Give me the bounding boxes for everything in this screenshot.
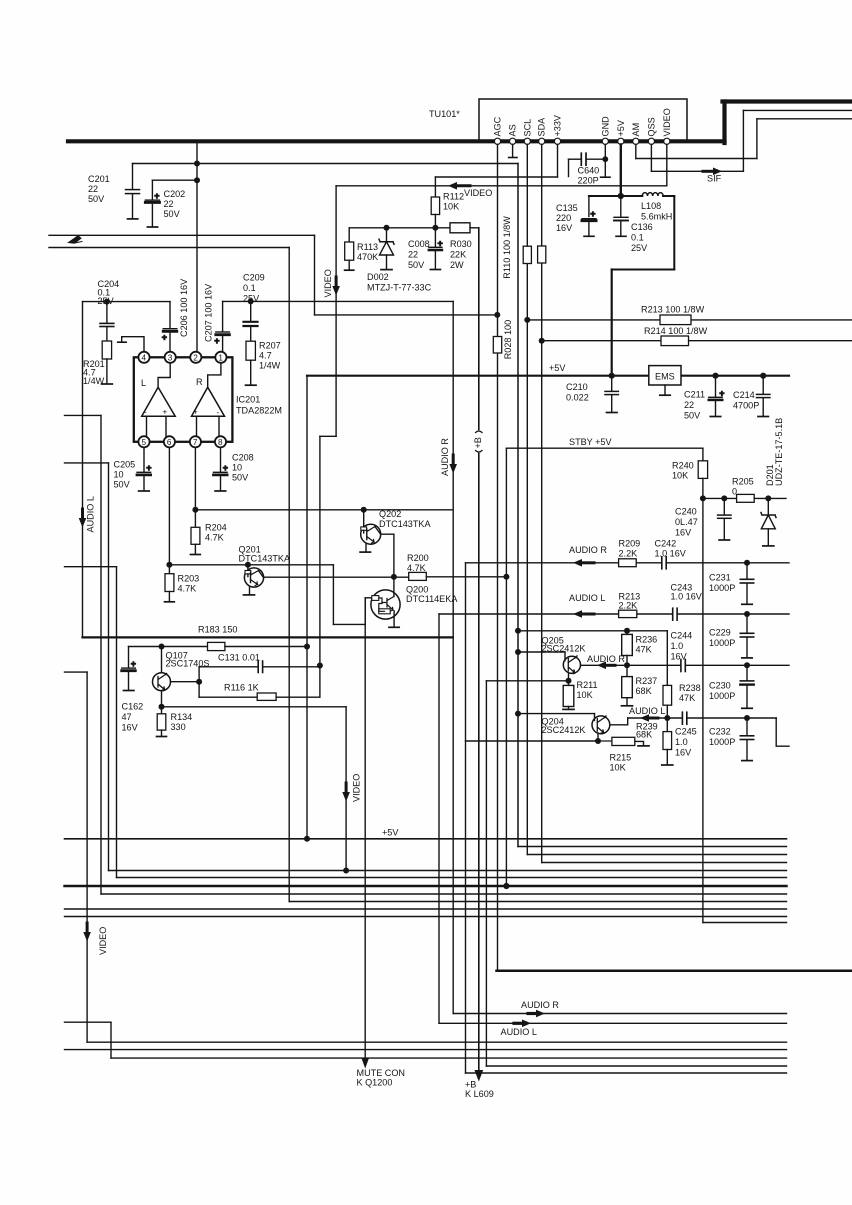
svg-text:10K: 10K bbox=[672, 471, 688, 481]
svg-text:L: L bbox=[141, 378, 146, 388]
wire L108 box right side bbox=[673, 196, 675, 270]
wire bus y854.5 from SCL bbox=[527, 854, 786, 856]
svg-text:1000P: 1000P bbox=[709, 737, 735, 747]
node Q204 emitter bbox=[595, 738, 601, 744]
svg-text:22: 22 bbox=[164, 199, 174, 209]
node C640-GND junction bbox=[602, 156, 608, 162]
wire left stub5 y1022.2 bbox=[65, 1021, 112, 1023]
wire C640 horizontal bbox=[569, 158, 581, 160]
diode D201 zener bbox=[767, 498, 769, 514]
capacitor C201 bbox=[126, 189, 140, 191]
svg-text:0: 0 bbox=[732, 487, 737, 497]
node Q107 base bbox=[196, 679, 202, 685]
wire AUDIO-R vertical v453 bbox=[452, 301, 454, 1013]
svg-text:C211: C211 bbox=[684, 390, 705, 400]
R207 end bar bbox=[246, 384, 257, 386]
wire C245 to C232 line bbox=[688, 717, 777, 719]
svg-text:R116 1K: R116 1K bbox=[224, 683, 259, 693]
svg-text:22: 22 bbox=[408, 250, 418, 260]
wire v346 video drop bbox=[345, 707, 347, 871]
resistor R207 bbox=[246, 341, 255, 360]
svg-text:SDA: SDA bbox=[537, 117, 547, 137]
C201 end bar bbox=[128, 218, 138, 220]
svg-text:R236: R236 bbox=[636, 635, 658, 645]
svg-text:R: R bbox=[196, 377, 203, 387]
node Q201 base bbox=[245, 562, 251, 568]
svg-text:220P: 220P bbox=[578, 176, 599, 186]
wire AUDIO L output line y1023.3 bbox=[439, 1022, 787, 1024]
wire bottom line y1058.1 bbox=[111, 1057, 787, 1059]
svg-text:50V: 50V bbox=[88, 194, 105, 204]
svg-text:+: + bbox=[162, 333, 167, 342]
wire VIDEO left long bbox=[336, 185, 667, 187]
capacitor C008 (polar) bbox=[434, 231, 436, 247]
svg-text:K L609: K L609 bbox=[465, 1089, 494, 1099]
wire Q200 base lead bbox=[365, 597, 372, 599]
capacitor C135 (polar) bbox=[582, 218, 596, 220]
svg-text:0.1: 0.1 bbox=[631, 233, 644, 243]
svg-text:AUDIO R: AUDIO R bbox=[440, 438, 450, 476]
wire R236 bottom to node bbox=[626, 656, 628, 666]
svg-text:C242: C242 bbox=[655, 539, 677, 549]
wire AGC bottom corner to thick line bbox=[497, 970, 852, 973]
wire box bottom left bbox=[612, 269, 675, 271]
node L108 input bbox=[618, 193, 624, 199]
wire line y1073 from v466 bbox=[466, 1072, 787, 1074]
connector TU101 box bbox=[479, 99, 687, 141]
wire v703 long drop bbox=[702, 498, 704, 922]
svg-text:AUDIO R: AUDIO R bbox=[569, 545, 607, 555]
wire line y1066 from v487 bbox=[486, 1065, 786, 1067]
wire L-net y301.6 bbox=[83, 301, 171, 303]
wire R240 drop bbox=[702, 448, 704, 461]
arrow AUDIO R inner (left) bbox=[603, 664, 615, 667]
pin4 ground bar bbox=[118, 341, 127, 343]
wire AM riser bbox=[756, 119, 758, 159]
transistor Q107 (2SC1740S) bbox=[161, 647, 163, 674]
svg-text:47K: 47K bbox=[679, 693, 695, 703]
transistor Q205 (2SC2412K) bbox=[563, 656, 580, 673]
D201 end bar bbox=[763, 545, 774, 547]
thick bus riser right bbox=[722, 102, 726, 144]
pin VIDEO bbox=[664, 138, 670, 144]
svg-text:+B: +B bbox=[465, 1080, 476, 1090]
resistor R214 100 bbox=[661, 336, 689, 346]
wire pin4 riser and ground bbox=[122, 337, 144, 352]
svg-text:2: 2 bbox=[193, 354, 198, 363]
wire +5V bottom rail y838.8 bbox=[65, 838, 787, 840]
svg-text:+: + bbox=[163, 408, 168, 417]
svg-text:AUDIO R: AUDIO R bbox=[587, 654, 625, 664]
pin QSS bbox=[648, 138, 654, 144]
transistor Q204 (2SC2412K) bbox=[592, 716, 610, 734]
svg-text:+: + bbox=[720, 389, 725, 398]
wire +5V pin down (thick) bbox=[620, 144, 622, 196]
svg-text:2SC2412K: 2SC2412K bbox=[542, 644, 586, 654]
svg-text:68K: 68K bbox=[636, 730, 652, 740]
svg-text:DTC143TKA: DTC143TKA bbox=[239, 554, 291, 564]
svg-text:2.2K: 2.2K bbox=[619, 601, 638, 611]
arrow AUDIO L inner (left) bbox=[646, 717, 658, 720]
wire bus y916.5 bbox=[65, 916, 787, 918]
pin 5 bbox=[138, 436, 149, 447]
pin 4 bbox=[138, 352, 149, 363]
wire v108.5 bbox=[108, 463, 110, 871]
svg-text:25V: 25V bbox=[243, 294, 260, 304]
wire bus y894 from v101 bbox=[101, 893, 787, 895]
svg-text:VIDEO: VIDEO bbox=[323, 269, 333, 297]
svg-text:AUDIO L: AUDIO L bbox=[629, 706, 665, 716]
wire left stub1 y415 bbox=[65, 414, 102, 416]
wire Q202 collector to join bbox=[381, 534, 394, 577]
svg-text:R028 100: R028 100 bbox=[503, 320, 513, 359]
C210 end bar bbox=[607, 412, 618, 414]
arrow AUDIO R output (right) bbox=[528, 1012, 537, 1015]
wire Q205 emitter bbox=[568, 673, 570, 681]
svg-text:2.2K: 2.2K bbox=[619, 549, 638, 559]
resistor R237 bbox=[626, 665, 628, 676]
node v307 to bottom rail bbox=[304, 836, 310, 842]
node Q202 base tap bbox=[361, 507, 367, 513]
svg-text:2SC1740S: 2SC1740S bbox=[166, 659, 210, 669]
svg-text:22: 22 bbox=[88, 184, 98, 194]
svg-text:16V: 16V bbox=[675, 748, 692, 758]
wire C201 drop bbox=[132, 164, 134, 189]
svg-text:AUDIO L: AUDIO L bbox=[501, 1027, 537, 1037]
svg-text:1.0 16V: 1.0 16V bbox=[655, 549, 687, 559]
wire C232 line jog right bbox=[776, 718, 789, 746]
svg-text:VIDEO: VIDEO bbox=[352, 774, 362, 802]
wire R116 right and riser bbox=[276, 669, 320, 698]
wire STBY vertical v506 bbox=[505, 448, 507, 886]
svg-text:C205: C205 bbox=[114, 460, 136, 470]
IC201 box bbox=[134, 357, 233, 442]
wire +B vertical upper bbox=[478, 228, 480, 430]
wire C135 lower leg bbox=[588, 223, 590, 236]
node C240 bbox=[721, 495, 727, 501]
wire R238 drop from rail bbox=[666, 631, 668, 686]
capacitor C640 bbox=[580, 153, 582, 165]
wire R207 lower leg bbox=[250, 360, 252, 385]
svg-text:C201: C201 bbox=[88, 174, 110, 184]
wire C640 left leg bbox=[568, 159, 570, 176]
resistor R028 bbox=[493, 337, 501, 354]
wire C131 line y666.8 bbox=[199, 666, 257, 668]
svg-text:4700P: 4700P bbox=[733, 401, 759, 411]
inductor L108 bbox=[621, 195, 643, 197]
main ground bus (thick) bbox=[68, 139, 725, 143]
wire bus y870.5 from v108.5 bbox=[109, 870, 787, 872]
wire +5V rail y375.7 (thick) bbox=[307, 375, 649, 377]
arrow AUDIO L output (right) bbox=[514, 1022, 523, 1025]
wire v307 drop bbox=[306, 376, 308, 839]
svg-text:-: - bbox=[144, 408, 147, 417]
wire Q201 emitter ground bbox=[249, 587, 251, 595]
wire R239 lower leg bbox=[666, 750, 668, 765]
wire L- input bbox=[146, 416, 148, 436]
pin 3 bbox=[165, 352, 176, 363]
C008 end bar bbox=[430, 269, 440, 271]
svg-text:R215: R215 bbox=[610, 753, 632, 763]
svg-text:50V: 50V bbox=[114, 480, 131, 490]
svg-text:220: 220 bbox=[556, 213, 571, 223]
pin 8 bbox=[215, 436, 226, 447]
svg-text:+: + bbox=[223, 464, 228, 473]
wire bus y886 thick bbox=[65, 885, 787, 887]
capacitor C242 bbox=[661, 557, 663, 569]
wire VIDEO pin down bbox=[666, 144, 668, 185]
svg-text:VIDEO: VIDEO bbox=[98, 927, 108, 955]
wire R211 lower leg bbox=[568, 707, 570, 710]
transistor Q201 (DTC143TKA) bbox=[244, 568, 263, 587]
svg-text:VIDEO: VIDEO bbox=[662, 108, 672, 136]
op-amp R bbox=[192, 387, 225, 416]
wire +B vertical lower bbox=[478, 454, 480, 1074]
resistor R113 bbox=[345, 242, 354, 260]
node AUDIO L inner bbox=[664, 715, 670, 721]
node D201 bbox=[765, 495, 771, 501]
svg-text:+5V: +5V bbox=[549, 363, 566, 373]
svg-text:1000P: 1000P bbox=[709, 583, 735, 593]
wire Q204 collector to AUDIO L inner bbox=[610, 718, 628, 725]
wire C131 to v320 bbox=[264, 666, 320, 668]
svg-text:SIF: SIF bbox=[707, 174, 722, 184]
pin +33V bbox=[554, 138, 560, 144]
resistor R201 bbox=[102, 341, 111, 359]
R201 end bar bbox=[102, 383, 113, 385]
wire v111 bbox=[110, 1022, 112, 1058]
svg-text:R200: R200 bbox=[407, 553, 429, 563]
svg-text:+: + bbox=[155, 192, 160, 201]
svg-text:C131 0.01: C131 0.01 bbox=[218, 653, 260, 663]
svg-text:0L.47: 0L.47 bbox=[675, 517, 698, 527]
svg-text:50V: 50V bbox=[684, 411, 701, 421]
Q201 ground bar bbox=[244, 594, 255, 596]
wire v487 bbox=[485, 681, 487, 1066]
svg-text:47K: 47K bbox=[636, 645, 652, 655]
capacitor C208 (polar) bbox=[220, 447, 222, 471]
svg-text:22K: 22K bbox=[450, 250, 466, 260]
svg-text:C244: C244 bbox=[671, 631, 693, 641]
node SCL/R213 bbox=[524, 317, 530, 323]
arrow +B end bbox=[474, 1070, 483, 1082]
wire line y247.5 bbox=[49, 247, 289, 249]
wire C135 leg bbox=[588, 196, 590, 217]
capacitor C244 bbox=[680, 660, 682, 672]
wire D002-box top line y235.3 bbox=[49, 234, 315, 236]
node STBY/collector bbox=[503, 574, 509, 580]
svg-text:+: + bbox=[438, 239, 443, 248]
svg-text:25V: 25V bbox=[98, 296, 115, 306]
wire v365 riser to Q200 base bbox=[364, 598, 366, 625]
wire emitter to v487 bbox=[486, 680, 568, 682]
wire C136 lower leg bbox=[620, 222, 622, 236]
svg-text:C162: C162 bbox=[122, 702, 144, 712]
wire AUDIO L mixer line y614 bbox=[439, 613, 672, 615]
svg-text:16V: 16V bbox=[675, 528, 692, 538]
wire v289 long vertical bbox=[288, 248, 290, 902]
svg-text:1.0: 1.0 bbox=[671, 641, 684, 651]
svg-text:-: - bbox=[217, 408, 220, 417]
svg-text:R183 150: R183 150 bbox=[198, 625, 237, 635]
R203 end bar bbox=[165, 601, 175, 603]
pin SDA bbox=[539, 138, 545, 144]
svg-text:R207: R207 bbox=[259, 341, 281, 351]
svg-text:SCL: SCL bbox=[522, 119, 532, 137]
node C211 bbox=[712, 373, 718, 379]
svg-text:1000P: 1000P bbox=[709, 691, 735, 701]
arrow VIDEO down v87 bbox=[86, 923, 89, 932]
node Q107 emitter bbox=[159, 704, 165, 710]
svg-text:Q200: Q200 bbox=[406, 585, 428, 595]
svg-text:3: 3 bbox=[168, 354, 173, 363]
wire v466 bbox=[465, 563, 467, 1073]
wire R134 lower leg bbox=[161, 730, 163, 736]
resistor R240 bbox=[698, 461, 707, 479]
capacitor C243 bbox=[672, 608, 674, 620]
svg-text:330: 330 bbox=[171, 722, 186, 732]
svg-text:1.0: 1.0 bbox=[675, 737, 688, 747]
svg-text:L108: L108 bbox=[641, 201, 661, 211]
svg-text:2SC2412K: 2SC2412K bbox=[542, 725, 586, 735]
resistor R112 bbox=[431, 197, 439, 215]
wire R030 to +B corner bbox=[470, 227, 479, 229]
R239 end bar bbox=[662, 764, 673, 766]
wire Q107 emitter bbox=[161, 691, 163, 707]
wire Q201 collector line y577 bbox=[264, 576, 409, 578]
capacitor C204 bbox=[100, 322, 114, 324]
svg-text:10K: 10K bbox=[577, 690, 593, 700]
wire base riser to C131 line bbox=[198, 667, 200, 697]
wire Q204 emitter bbox=[597, 733, 599, 741]
wire pin2 riser from bus bbox=[196, 143, 198, 352]
resistor R209 bbox=[619, 559, 637, 567]
svg-text:4: 4 bbox=[142, 354, 147, 363]
svg-text:+: + bbox=[131, 660, 136, 669]
resistor R236 bbox=[626, 631, 628, 635]
svg-text:C135: C135 bbox=[556, 203, 578, 213]
svg-text:0.1: 0.1 bbox=[243, 283, 256, 293]
svg-text:7: 7 bbox=[193, 438, 198, 447]
arrow SIF bbox=[703, 170, 714, 173]
svg-text:R113: R113 bbox=[357, 242, 378, 252]
wire SDA vertical bbox=[541, 144, 543, 246]
wire v101 bbox=[100, 415, 102, 894]
svg-text:R110 100 1/8W: R110 100 1/8W bbox=[502, 216, 512, 279]
svg-text:EMS: EMS bbox=[655, 372, 675, 382]
wire bus y922.5 from v703 bbox=[703, 922, 787, 924]
wire y314.9 to AGC bbox=[315, 314, 498, 316]
svg-text:R203: R203 bbox=[178, 574, 200, 584]
wire R112 to node bbox=[434, 215, 436, 228]
capacitor C230 bbox=[744, 662, 750, 668]
wire SIF riser bbox=[742, 110, 744, 171]
capacitor C131 bbox=[257, 661, 259, 673]
svg-text:C232: C232 bbox=[709, 727, 731, 737]
svg-text:4.7K: 4.7K bbox=[178, 584, 197, 594]
wire R203/Q201 base line y564.8 bbox=[169, 564, 333, 566]
node +5V feed joins rail bbox=[609, 373, 615, 379]
svg-text:MTZJ-T-77-33C: MTZJ-T-77-33C bbox=[367, 283, 432, 293]
node R236 top bbox=[624, 628, 630, 634]
wire jog v333 bbox=[332, 565, 334, 625]
svg-text:50V: 50V bbox=[164, 209, 181, 219]
wire R238 bottom to node bbox=[666, 705, 668, 718]
wire left stub4 y672.1 bbox=[65, 671, 88, 673]
wire R116 line y697.2 bbox=[199, 696, 257, 698]
node line-A / pin2 riser bbox=[194, 161, 200, 167]
wire bottom line y1042.2 from v87 bbox=[87, 1041, 786, 1043]
wire R240 to node bbox=[702, 478, 704, 498]
svg-text:Q202: Q202 bbox=[379, 509, 401, 519]
wire v517 (line-A drop) bbox=[517, 164, 519, 847]
svg-text:+5V: +5V bbox=[616, 119, 626, 136]
capacitor C206 (polar) bbox=[169, 302, 171, 328]
R211 end bar bbox=[563, 708, 574, 710]
svg-text:AGC: AGC bbox=[493, 116, 503, 136]
wire +33V pin down bbox=[557, 144, 559, 177]
C135 end bar bbox=[584, 235, 594, 237]
svg-text:R213 100 1/8W: R213 100 1/8W bbox=[641, 305, 705, 315]
svg-text:C231: C231 bbox=[709, 573, 731, 583]
node R240 bottom bbox=[700, 495, 706, 501]
node STBY vertical end bbox=[503, 883, 509, 889]
pin 1 bbox=[215, 352, 226, 363]
node D002 top bbox=[384, 225, 390, 231]
thick bus top-right bbox=[723, 99, 852, 103]
node Q205 emitter bbox=[566, 678, 572, 684]
wire R237 lower leg bbox=[626, 698, 628, 706]
svg-text:C207 100 16V: C207 100 16V bbox=[204, 283, 214, 342]
Q202 ground bar bbox=[360, 551, 370, 553]
wire AGC vertical bbox=[497, 144, 499, 336]
node Q107 collector bbox=[159, 644, 165, 650]
wire Q205 base line y652 bbox=[518, 651, 565, 653]
pin AGC bbox=[494, 138, 500, 144]
svg-text:16V: 16V bbox=[122, 723, 139, 733]
pin +5V bbox=[618, 138, 624, 144]
resistor R205 bbox=[737, 494, 755, 502]
capacitor C202 (polar) bbox=[145, 199, 159, 201]
svg-text:R214 100 1/8W: R214 100 1/8W bbox=[644, 326, 708, 336]
wire R215 to ground hook bbox=[635, 741, 644, 745]
svg-text:D002: D002 bbox=[367, 272, 389, 282]
wire R113 drop bbox=[348, 228, 350, 242]
svg-text:DTC143TKA: DTC143TKA bbox=[379, 519, 431, 529]
svg-text:50V: 50V bbox=[232, 473, 249, 483]
svg-text:16V: 16V bbox=[671, 652, 688, 662]
wire pin1 to R amp bbox=[208, 363, 221, 387]
svg-text:AUDIO L: AUDIO L bbox=[86, 496, 96, 532]
capacitor C205 (polar) bbox=[143, 447, 145, 471]
svg-text:68K: 68K bbox=[636, 686, 652, 696]
svg-text:4.7K: 4.7K bbox=[407, 563, 426, 573]
wire line-A horizontal y163.5 bbox=[133, 163, 519, 165]
wire node to R205 bbox=[703, 497, 737, 499]
wire R- input bbox=[218, 416, 220, 436]
resistor R203 bbox=[168, 565, 170, 574]
arrow AUDIO L down bbox=[81, 509, 84, 518]
resistor R030 bbox=[450, 223, 470, 233]
wire Q200 emitter ground bbox=[393, 611, 395, 627]
arrow AUDIO L mixer (left) bbox=[581, 613, 594, 616]
C205 end bar bbox=[139, 490, 150, 492]
C162 end bar bbox=[124, 690, 134, 692]
capacitor C136 bbox=[614, 216, 628, 218]
wire GND pin stub bbox=[604, 144, 606, 176]
node R183/+5V bbox=[304, 644, 310, 650]
+B break symbol bbox=[476, 431, 482, 433]
